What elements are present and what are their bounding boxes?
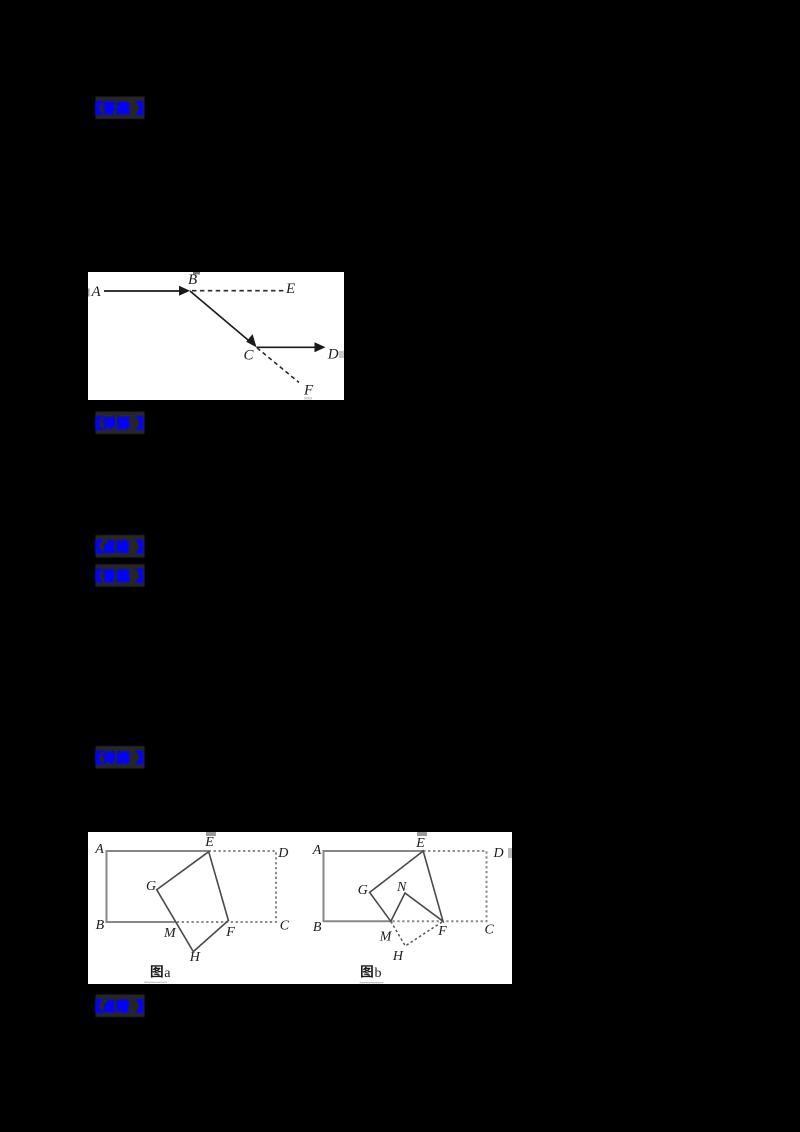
dashed fold MHF (fig b) [391,921,443,946]
label 【详解】 [96,746,145,769]
wire arrow B to C [190,291,251,343]
svg-text:A: A [94,842,104,857]
svg-text:B: B [96,918,105,933]
gray mark right of D [339,351,344,358]
svg-text:M: M [163,926,177,941]
gray mark above E (fig b) [417,832,427,836]
label 【点睛】 [96,995,145,1018]
svg-text:M: M [379,930,393,945]
svg-text:H: H [189,950,201,965]
dashed line C to F [257,348,299,383]
wire arrow A to B [104,290,182,292]
rectangle ABCD dashed edges (fig b) [391,851,487,921]
svg-text:G: G [146,879,156,894]
svg-text:b: b [375,966,382,981]
svg-text:C: C [244,348,255,364]
svg-text:E: E [204,835,214,850]
svg-text:E: E [285,281,295,297]
wire arrow C to D [257,346,318,348]
caption 图b [361,965,373,977]
svg-text:D: D [493,846,504,861]
gray mark above B [193,272,200,275]
folded quad EGHF (fig a) [157,852,229,952]
gray underline below caption a [144,982,167,983]
rectangle ABCD dashed edges (fig a) [175,851,276,922]
label 【答案】 [96,97,145,120]
gray mark above E (fig a) [206,832,216,836]
svg-text:C: C [485,923,495,938]
rectangle ABCD solid edges (fig a) [107,851,209,922]
svg-text:a: a [164,966,171,981]
svg-text:F: F [437,924,447,939]
gray tick at left edge [88,289,90,297]
folded shape EGMNF (fig b) [370,851,443,921]
svg-text:N: N [396,880,407,895]
label 【点睛】 [96,535,145,558]
svg-text:D: D [327,347,339,363]
label 【答案】 [96,564,145,587]
rectangle ABCD solid edges (fig b) [324,851,424,921]
gray mark below F [304,397,312,400]
svg-text:D: D [277,846,288,861]
svg-text:A: A [312,843,322,858]
svg-text:C: C [280,919,290,934]
svg-text:E: E [415,836,425,851]
svg-text:A: A [91,284,102,300]
dashed line B to E [192,290,284,292]
svg-text:F: F [225,925,235,940]
gray mark right of D (fig b) [508,848,512,858]
svg-text:F: F [303,383,314,399]
svg-text:G: G [358,883,368,898]
svg-text:H: H [392,949,404,964]
caption 图a [151,965,163,977]
gray underline below caption b [360,982,384,983]
figure 2: fold diagrams 图a and 图b [88,832,512,984]
figure 1: ray diagram ABCD [88,272,344,400]
svg-text:B: B [313,920,322,935]
label 【详解】 [96,412,145,435]
